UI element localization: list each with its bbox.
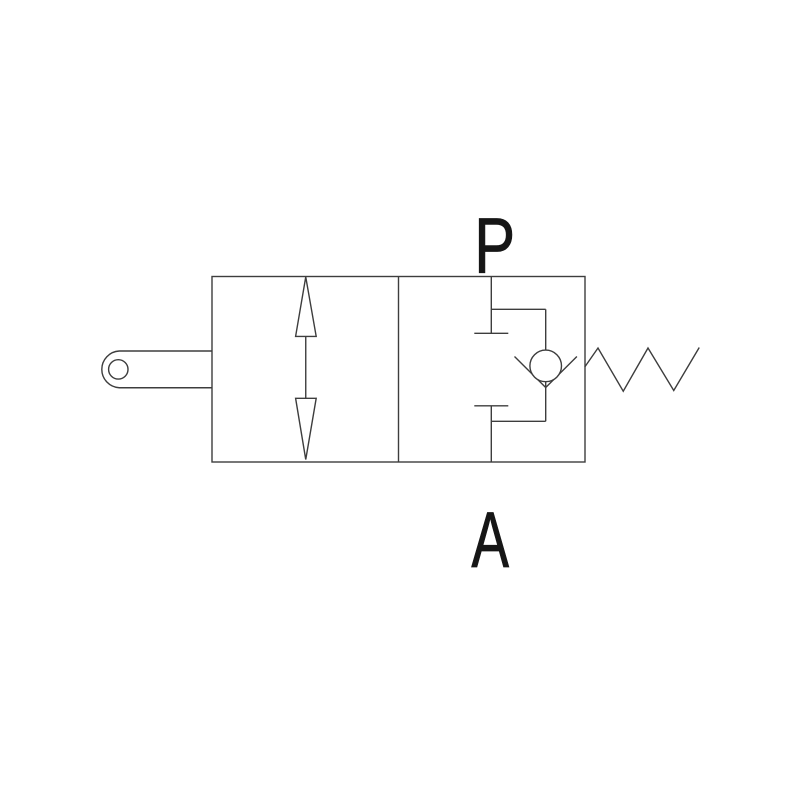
svg-text:P: P	[474, 202, 515, 290]
svg-text:A: A	[471, 497, 509, 584]
